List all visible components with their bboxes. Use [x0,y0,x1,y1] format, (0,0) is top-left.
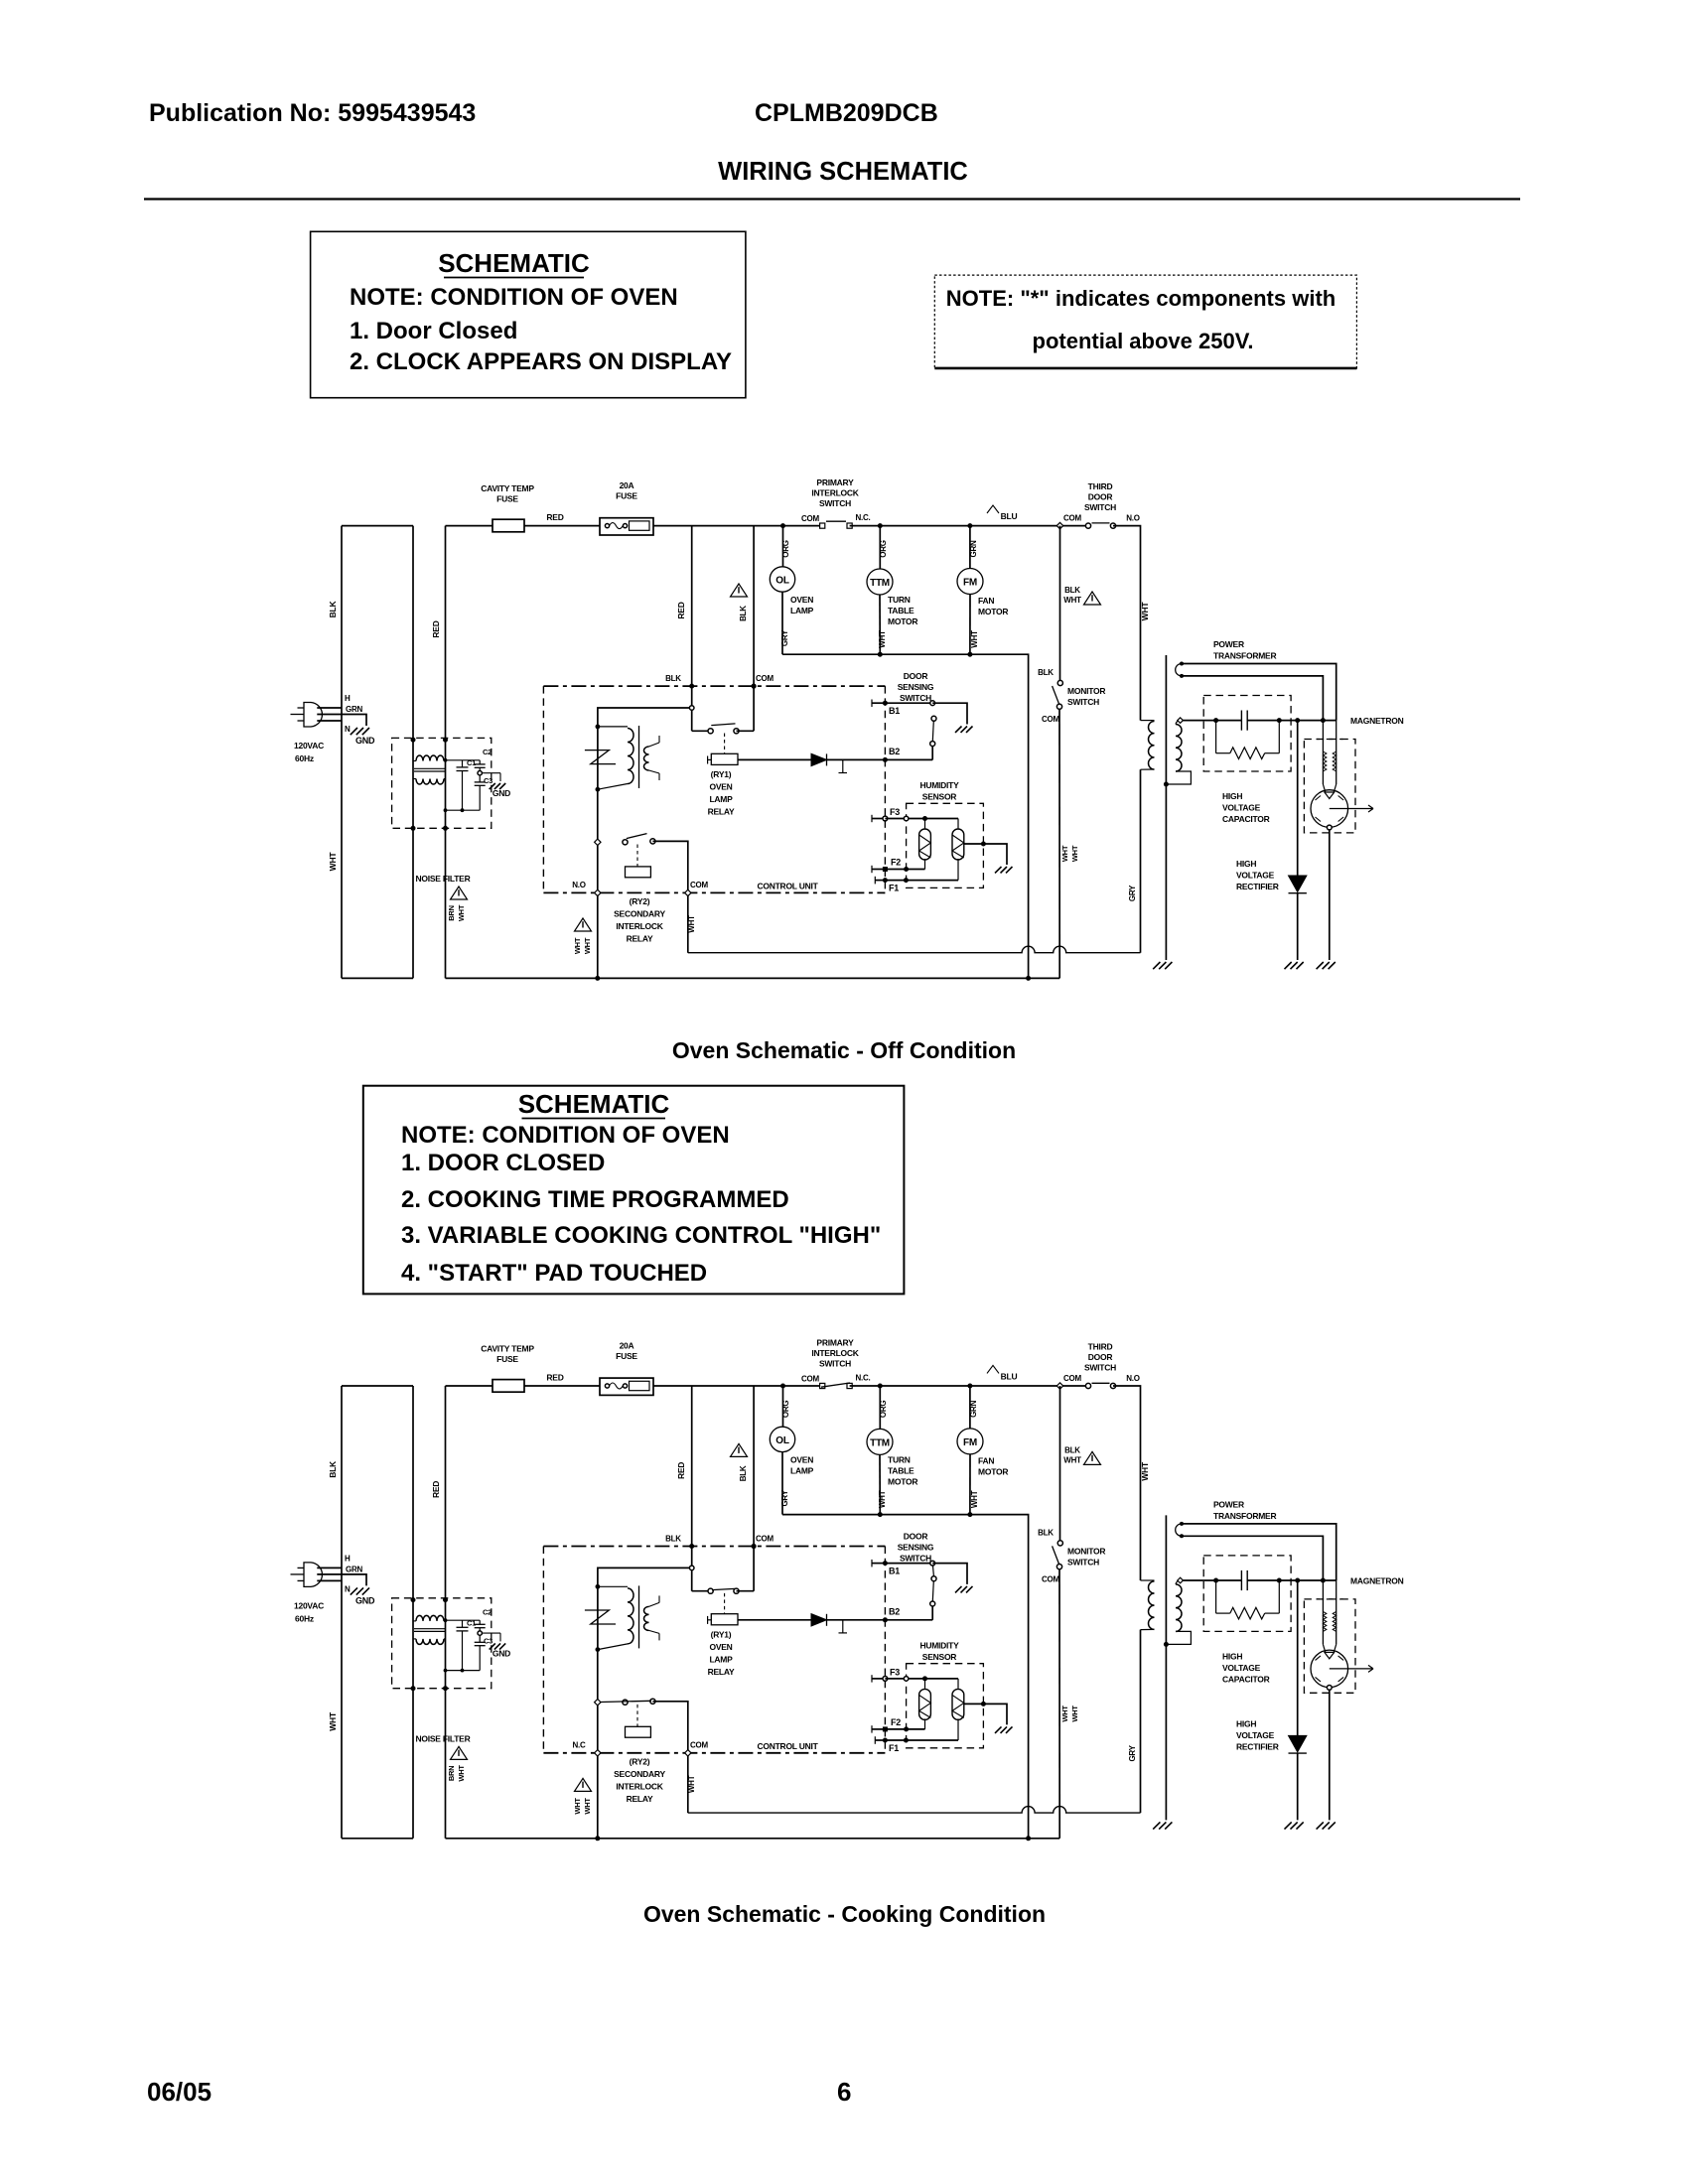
svg-text:RED: RED [676,1462,686,1479]
switch S4 monitor B [1057,1541,1062,1546]
thermistor RT2 A [957,819,959,829]
svg-text:BLU: BLU [1001,1371,1018,1381]
svg-text:4. "START" PAD TOUCHED: 4. "START" PAD TOUCHED [401,1260,707,1287]
svg-text:SENSING: SENSING [898,1542,934,1552]
svg-text:OVEN: OVEN [709,782,732,792]
wire C2C3 ground lead A [482,772,500,774]
svg-text:OL: OL [775,576,789,587]
humidity sensor box B [907,1664,984,1748]
svg-text:(RY2): (RY2) [630,896,650,906]
svg-text:CAVITY TEMP: CAVITY TEMP [481,483,534,493]
wire B2 riser B [931,1606,933,1620]
wire main bottom bus B [446,1838,1060,1840]
junction filter bottom left B [411,1686,416,1691]
node HV rail arrow B [1178,1577,1184,1583]
wire plug GRN lead A [317,715,366,727]
svg-text:ORG: ORG [781,1401,790,1419]
svg-text:WHT: WHT [1063,596,1081,605]
transformer T1 HV secondary A [1176,725,1182,772]
switch S4 monitor A [1057,680,1062,685]
wire main bottom bus A [446,977,1060,979]
terminal F2 B [871,1725,873,1732]
svg-text:Oven Schematic - Off Conditio: Oven Schematic - Off Condition [672,1037,1016,1063]
svg-text:B2: B2 [889,747,900,756]
svg-text:NOISE FILTER: NOISE FILTER [416,1733,471,1743]
junction HV return B [1164,1642,1169,1647]
transformer T1 core A [1165,655,1167,960]
svg-text:SWITCH: SWITCH [819,498,851,508]
svg-text:FM: FM [963,1437,977,1448]
svg-text:SCHEMATIC: SCHEMATIC [438,248,590,278]
svg-text:COM: COM [1063,1374,1082,1383]
wire rectifier to ground A [1297,893,1299,960]
terminal B1 A [871,700,873,708]
svg-text:FAN: FAN [978,596,994,606]
node RY2 NO terminal A [595,839,601,845]
svg-text:PRIMARY: PRIMARY [816,1337,854,1347]
fuse F2 20A B [600,1378,653,1395]
svg-text:N: N [345,725,351,734]
svg-text:6: 6 [837,2077,851,2107]
svg-text:SENSOR: SENSOR [922,1652,957,1662]
svg-text:VOLTAGE: VOLTAGE [1222,1663,1261,1673]
label BLU caret B [987,1365,999,1373]
svg-text:COM: COM [801,514,820,523]
relay RY1 coil B [711,1614,738,1625]
svg-text:C2: C2 [483,1607,492,1616]
svg-text:WHT: WHT [583,937,592,954]
svg-text:SCHEMATIC: SCHEMATIC [518,1089,670,1119]
svg-text:INTERLOCK: INTERLOCK [811,488,859,498]
svg-text:WHT: WHT [970,630,979,648]
junction TTM return B [878,1512,883,1517]
wire filament lead lower A [1182,676,1323,721]
motor FM fan B [969,1386,971,1429]
note box 3 [363,1086,905,1295]
svg-text:N.C.: N.C. [856,513,871,522]
svg-text:TURN: TURN [888,595,911,605]
svg-text:GRN: GRN [346,705,363,714]
svg-text:WHT: WHT [1060,845,1069,862]
junction bus-lampreturn B [1026,1836,1031,1841]
svg-text:TABLE: TABLE [888,1465,914,1475]
svg-text:POWER: POWER [1213,1499,1244,1509]
svg-text:SENSOR: SENSOR [922,792,957,802]
control unit boundary top B [543,1546,885,1548]
switch S2 closing link B [932,1566,935,1575]
svg-text:FUSE: FUSE [496,1354,518,1364]
power plug P1-A [304,703,322,728]
wire fuse link B [524,1385,600,1387]
wire F2 A [885,869,924,871]
control unit boundary bottom B [543,1752,885,1754]
svg-text:GRY: GRY [1128,1744,1137,1761]
wire rectifier drop B [1297,1580,1299,1735]
svg-text:B1: B1 [889,706,900,716]
junction bleed right A [1277,718,1282,723]
control unit boundary left A [542,686,544,892]
wire fuse link A [524,525,600,527]
transformer T2 LV A [597,727,599,789]
svg-text:WHT: WHT [328,1711,338,1731]
ground plug GND B [351,1587,357,1594]
switch S1 primary interlock contacts B [820,1383,825,1388]
node RY2 NO terminal B [595,1700,601,1706]
svg-text:BRN: BRN [447,905,456,921]
capacitor C1 B [446,1619,481,1621]
relay RY1 contacts A [708,729,713,734]
wire magnetron anode ground B [1329,1690,1331,1820]
wire fuse feed A [446,525,493,527]
capacitor C1 A [446,759,481,761]
capacitor C2 A [479,760,481,764]
wire B1 ground branch B [932,1564,967,1584]
node RY2 boundary diamond B [595,1750,601,1756]
svg-text:RECTIFIER: RECTIFIER [1236,1741,1279,1751]
ground noise filter B [490,1643,495,1649]
svg-text:(RY2): (RY2) [630,1756,650,1766]
svg-text:(RY1): (RY1) [711,769,732,779]
transformer T1 core B [1165,1515,1167,1820]
wire bottom return A A [342,977,413,979]
svg-text:N: N [345,1584,351,1593]
junction boundary COM A [752,684,757,689]
switch S3 third door contacts A [1085,523,1090,528]
power plug P1-B [304,1563,322,1587]
svg-text:MOTOR: MOTOR [888,1476,917,1486]
wire HV rail left B [1181,1579,1242,1581]
ground plug GND A [351,728,357,735]
svg-text:B2: B2 [889,1606,900,1616]
svg-text:BLK: BLK [739,606,748,621]
svg-text:CAPACITOR: CAPACITOR [1222,1674,1270,1684]
svg-text:MONITOR: MONITOR [1067,1546,1105,1556]
note box 2 [934,275,1356,368]
svg-text:2. COOKING TIME PROGRAMMED: 2. COOKING TIME PROGRAMMED [401,1186,789,1213]
svg-text:CONTROL UNIT: CONTROL UNIT [757,882,818,891]
svg-text:HUMIDITY: HUMIDITY [919,780,959,790]
transformer T1 primary A [1141,720,1155,722]
wire BLK/WHT left vertical A [341,526,343,979]
transformer T1 filament winding A [1176,664,1182,676]
junction bus-RY2drop B [595,1836,600,1841]
junction lamp branch B [780,1384,785,1389]
svg-text:RELAY: RELAY [708,1667,735,1677]
svg-text:120VAC: 120VAC [294,741,324,751]
transformer T1 primary B [1141,1579,1155,1581]
svg-text:SENSING: SENSING [898,682,934,692]
warning triangle RY2 B [575,1778,592,1791]
svg-text:LAMP: LAMP [709,794,733,804]
wire BLK drop to filter B [412,1386,414,1839]
svg-text:NOTE: "*" indicates components: NOTE: "*" indicates components with [946,286,1336,311]
capacitor C4 HV B [1240,1570,1242,1590]
svg-text:TABLE: TABLE [888,606,914,615]
svg-text:1. Door Closed: 1. Door Closed [350,318,517,344]
svg-text:BLK: BLK [328,1460,338,1478]
warning triangle RY2 A [575,918,592,931]
diode D2 HV rectifier A [1289,876,1307,892]
ground door sense B [955,1586,961,1592]
wire monitor drop B [1059,1386,1061,1541]
wire plug H lead A [317,707,342,709]
svg-text:VOLTAGE: VOLTAGE [1236,1730,1275,1740]
wire third switch out B [1113,1386,1141,1580]
node LV link circle B [689,1566,694,1570]
svg-text:1. DOOR CLOSED: 1. DOOR CLOSED [401,1150,605,1176]
svg-text:CAPACITOR: CAPACITOR [1222,814,1270,824]
fuse F2 20A A [600,518,653,535]
svg-text:HIGH: HIGH [1236,859,1256,869]
ground magnetron A [1317,962,1324,969]
control unit boundary right B [884,1547,886,1753]
noise filter box B [392,1598,492,1689]
relay RY2 link A [636,845,638,867]
wire B1 to contact B [885,1563,932,1565]
svg-text:H: H [345,1554,351,1563]
svg-text:WHT: WHT [457,904,466,921]
warning triangle third switch A [1084,592,1101,605]
relay RY2 blade open A [627,834,647,839]
svg-text:POWER: POWER [1213,639,1244,649]
wire interlock bus with hops B [688,1807,1141,1813]
terminal F1 B [874,1736,876,1744]
switch S2 door sensing contact B [930,1561,935,1566]
svg-text:OVEN: OVEN [790,1454,813,1464]
warning triangle filter A [451,887,468,899]
svg-text:OVEN: OVEN [709,1642,732,1652]
svg-text:DOOR: DOOR [1088,1352,1113,1362]
svg-text:GRN: GRN [346,1565,363,1573]
motor FM fan A [969,526,971,569]
wire HV rail right B [1247,1579,1336,1581]
lamp OL oven lamp B [782,1386,784,1427]
junction filament left B [1321,1578,1326,1583]
junction bleed right B [1277,1578,1282,1583]
junction boundary COM B [752,1544,757,1549]
svg-text:RED: RED [546,1372,563,1382]
svg-text:HUMIDITY: HUMIDITY [919,1640,959,1650]
switch S2 blade B [931,1576,936,1581]
svg-text:N.O: N.O [572,881,586,889]
wire monitor to bus B [1058,1570,1060,1839]
svg-text:VOLTAGE: VOLTAGE [1222,803,1261,813]
terminal F2 A [871,866,873,873]
resistor R1 bleed B [1215,1580,1217,1613]
svg-text:C2: C2 [483,748,492,756]
svg-text:SECONDARY: SECONDARY [614,909,665,919]
svg-text:INTERLOCK: INTERLOCK [616,1781,663,1791]
svg-text:DOOR: DOOR [904,1531,928,1541]
wire fuse feed B [446,1385,493,1387]
junction filter bottom left A [411,826,416,831]
node test stub A [842,759,844,772]
wire filament lead upper A [1182,664,1336,721]
label BLU caret A [987,505,999,513]
wire F2 B [885,1728,924,1730]
svg-text:20A: 20A [620,480,634,490]
wire rectifier drop A [1297,721,1299,876]
HV capacitor box A [1203,696,1291,772]
wire filament lead upper B [1182,1524,1336,1580]
fuse F1 cavity temp A [492,519,524,532]
wire BLK drop COM A [753,526,755,732]
svg-text:SWITCH: SWITCH [819,1358,851,1368]
wire top line to interlock A [653,525,822,527]
thermistor RT2 B [957,1679,959,1689]
HV capacitor box B [1203,1556,1291,1632]
svg-text:SECONDARY: SECONDARY [614,1769,665,1779]
magnetron V1 tube B [1323,1644,1336,1652]
wire top line to interlock B [653,1385,822,1387]
header rule [144,198,1520,200]
relay RY2 contacts A [623,840,628,845]
svg-text:BLK: BLK [1064,586,1080,595]
fuse F1 cavity temp B [492,1380,524,1393]
wire RED vertical A [445,526,447,979]
svg-text:Oven Schematic - Cooking Condi: Oven Schematic - Cooking Condition [643,1901,1046,1927]
ground PT core B [1153,1822,1160,1829]
svg-text:SWITCH: SWITCH [1067,1557,1099,1567]
svg-text:WHT: WHT [1140,602,1150,621]
svg-text:FUSE: FUSE [616,1351,637,1361]
magnetron box B [1304,1599,1355,1693]
wire LV primary top link A [598,708,692,727]
svg-text:TRANSFORMER: TRANSFORMER [1213,651,1276,661]
wire plug H lead B [317,1567,342,1569]
svg-text:B1: B1 [889,1566,900,1575]
wire LVT secondary drop B [597,1650,599,1839]
switch S1 primary interlock contacts A [820,523,825,528]
ground door sense A [955,727,961,733]
svg-text:PRIMARY: PRIMARY [816,478,854,487]
wire RED drop B [691,1386,693,1591]
svg-text:60Hz: 60Hz [295,1613,314,1623]
ground magnetron B [1317,1822,1324,1829]
svg-text:DOOR: DOOR [1088,492,1113,502]
wire B2 riser A [931,747,933,760]
svg-text:WHT: WHT [573,937,582,954]
junction boundary RED A [689,684,694,689]
svg-text:WIRING SCHEMATIC: WIRING SCHEMATIC [718,158,968,186]
relay RY1 link B [724,1593,726,1614]
junction TTM branch B [878,1384,883,1389]
svg-text:BLK: BLK [665,1534,681,1543]
humidity sensor box A [907,803,984,887]
node C2C3 mid A [478,771,482,775]
wire top jumper B [342,1385,413,1387]
wire HV rail right A [1247,720,1336,722]
svg-text:potential above 250V.: potential above 250V. [1033,329,1254,353]
svg-text:GRY: GRY [780,629,789,646]
node RY2 COM diamond B [685,1750,691,1756]
wire RED corner to RY1 A [692,730,711,732]
svg-text:TRANSFORMER: TRANSFORMER [1213,1511,1276,1521]
svg-text:C1: C1 [467,758,476,767]
svg-text:HIGH: HIGH [1236,1718,1256,1728]
wire B1 ground branch A [932,703,967,724]
svg-text:COM: COM [690,1740,709,1749]
svg-text:F1: F1 [889,1743,899,1753]
svg-text:MAGNETRON: MAGNETRON [1350,716,1404,726]
node COM third door switch B [1056,1383,1062,1389]
svg-text:(RY1): (RY1) [711,1629,732,1639]
svg-text:MOTOR: MOTOR [978,1466,1008,1476]
transformer T1 HV secondary B [1176,1584,1182,1632]
svg-text:F2: F2 [891,858,901,868]
switch S1 blade open A [826,520,846,522]
wire F3 B [885,1678,958,1680]
wire F1 B [885,1739,958,1741]
svg-text:OL: OL [775,1435,789,1446]
resistor R1 bleed A [1215,721,1217,753]
svg-text:CPLMB209DCB: CPLMB209DCB [755,99,938,127]
svg-text:N.O: N.O [1126,1374,1140,1383]
switch S3 blade A [1092,522,1110,524]
svg-text:WHT: WHT [687,1775,696,1793]
svg-text:VOLTAGE: VOLTAGE [1236,871,1275,881]
svg-text:BLK: BLK [328,601,338,618]
wire rectifier to ground B [1297,1753,1299,1820]
ground rectifier B [1285,1822,1292,1829]
control unit boundary left B [542,1547,544,1753]
terminal F3 A [871,815,873,822]
switch S3 third door contacts B [1085,1383,1090,1388]
svg-text:WHT: WHT [687,915,696,933]
svg-text:SWITCH: SWITCH [900,693,931,703]
svg-text:THIRD: THIRD [1088,481,1113,491]
svg-text:RECTIFIER: RECTIFIER [1236,882,1279,891]
junction boundary RED B [689,1544,694,1549]
svg-text:WHT: WHT [878,630,887,648]
svg-text:BLK: BLK [1038,1528,1054,1537]
switch S2 blade A [931,716,936,721]
svg-text:MONITOR: MONITOR [1067,686,1105,696]
switch S2 door sensing contact A [930,701,935,706]
svg-text:NOTE: CONDITION OF OVEN: NOTE: CONDITION OF OVEN [401,1122,730,1149]
wire RY1 coil out A [738,758,811,760]
transformer T3 noise filter A [411,738,416,743]
svg-text:INTERLOCK: INTERLOCK [811,1348,859,1358]
svg-text:N.C.: N.C. [856,1373,871,1382]
svg-text:FUSE: FUSE [496,494,518,504]
svg-text:INTERLOCK: INTERLOCK [616,921,663,931]
relay RY2 link B [636,1705,638,1726]
svg-text:H: H [345,694,351,703]
magnetron V1 tube A [1323,784,1336,792]
svg-text:GND: GND [355,1595,375,1605]
svg-text:ORG: ORG [781,540,790,558]
svg-text:SWITCH: SWITCH [1084,502,1116,512]
svg-text:HIGH: HIGH [1222,791,1242,801]
svg-text:GRN: GRN [969,540,978,558]
ground noise filter A [490,783,495,789]
junction rectifier tap B [1295,1578,1300,1583]
diode D1 A [811,753,827,765]
junction bleed left A [1213,718,1218,723]
svg-text:C1: C1 [467,1618,476,1627]
svg-text:COM: COM [756,674,774,683]
wire RED drop A [691,526,693,732]
capacitor C2 B [479,1620,481,1624]
note box 1 [311,231,746,397]
svg-text:BLK: BLK [1038,668,1054,677]
wire monitor drop A [1059,526,1061,681]
terminal F1 A [874,877,876,885]
wire component return bus B [782,1515,1029,1839]
terminal B1 B [871,1560,873,1568]
motor TTM turntable B [879,1386,881,1429]
